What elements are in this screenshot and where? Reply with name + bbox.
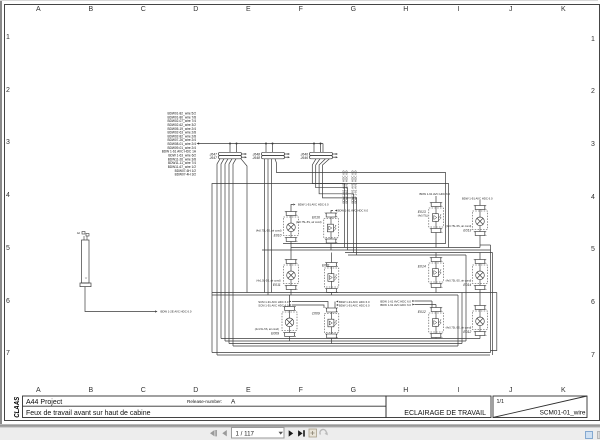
svg-text:1 / 117: 1 / 117	[236, 430, 255, 437]
